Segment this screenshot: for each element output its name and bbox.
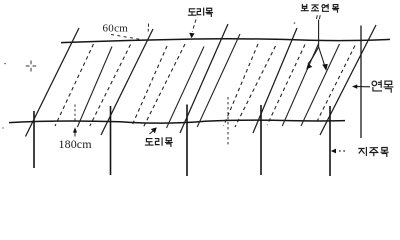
leader from bottom 도리목: [150, 131, 154, 135]
rafter (dashed) gap3-c: [235, 46, 276, 127]
label 도리목 (top purlin): [188, 8, 212, 16]
bottom purlin line (bottom horizontal member): [9, 120, 345, 123]
rafter L4 (연목, long solid): [253, 28, 297, 133]
rafter (dashed) gap1-a: [55, 44, 94, 126]
post 5 (지주목): [329, 106, 331, 176]
svg-text:60cm: 60cm: [103, 23, 129, 35]
label 연목 (rafter): [372, 81, 393, 93]
post 4 (지주목): [260, 105, 262, 175]
left fork branch of 보조연목 leader: [308, 47, 319, 64]
arrowhead pointing up-right (bottom 도리목): [151, 127, 157, 133]
rafter L3 (연목, long solid): [180, 24, 228, 133]
post 3 (지주목): [186, 105, 188, 177]
scan speck left edge: [4, 63, 6, 65]
right fork arrowhead: [322, 64, 328, 71]
left fork arrowhead: [306, 63, 312, 69]
svg-text:180cm: 180cm: [59, 137, 93, 151]
tick marks under 보조연목 label: [317, 15, 321, 19]
right end vertical member: [360, 26, 362, 139]
rafter (dashed) gap2-b: [144, 44, 186, 127]
scan speck bottom left: [2, 127, 3, 128]
dashed vertical reference line between posts 3 and 4: [227, 97, 229, 146]
top purlin line (top horizontal member): [61, 39, 390, 43]
up arrowhead (180cm): [73, 127, 77, 132]
scan speck near 292 rafter top: [294, 22, 296, 24]
dashed tick above purlin at x=148 (60cm end mark): [147, 24, 149, 32]
rafter (dashed) gap3-b: [224, 44, 258, 126]
leader line down from 보조연목: [318, 20, 320, 49]
dashed leader from 60cm toward rafter L2: [111, 35, 143, 40]
up arrow below bottom line (180cm): [74, 131, 76, 137]
rafter L2 (연목, long solid): [101, 29, 153, 135]
arrowhead pointing left at rafter L5: [352, 84, 357, 88]
dashed extension line above 180cm: [74, 105, 76, 121]
auxiliary rafter (보조연목) gap4-b: [282, 44, 318, 127]
post 1 (지주목): [33, 111, 35, 168]
right fork branch of 보조연목 leader: [319, 47, 325, 65]
registration cross mark (+) at left: [26, 61, 36, 72]
rafter L5 (연목, long solid): [320, 25, 376, 135]
rafter (dashed) gap4-a: [267, 45, 305, 126]
rafter (dashed) gap1-c: [90, 45, 131, 127]
rafter (dashed) gap2-a: [131, 46, 167, 127]
auxiliary rafter (보조연목) gap4-c: [301, 44, 340, 126]
post 2 (지주목): [110, 106, 112, 175]
arrowhead at purlin (top 도리목): [189, 33, 194, 39]
label 도리목 (bottom purlin): [145, 138, 172, 147]
rafter L1 (연목, long solid): [26, 28, 80, 137]
label 지주목 (support post): [359, 147, 388, 156]
leader line for 연목: [355, 86, 370, 88]
label 보조연목 (auxiliary rafters): [301, 4, 338, 12]
dashed leader from 도리목 to purlin: [192, 20, 196, 32]
rafter (dashed) gap4-d: [317, 46, 355, 122]
dashed leader for 지주목: [339, 150, 347, 152]
rafter gap2-c: [167, 47, 205, 129]
arrowhead pointing left at post 5 (지주목): [331, 149, 336, 154]
rafter gap1-b: [77, 47, 112, 128]
rafter gap3-a (solid, pokes above purlin): [197, 34, 240, 127]
